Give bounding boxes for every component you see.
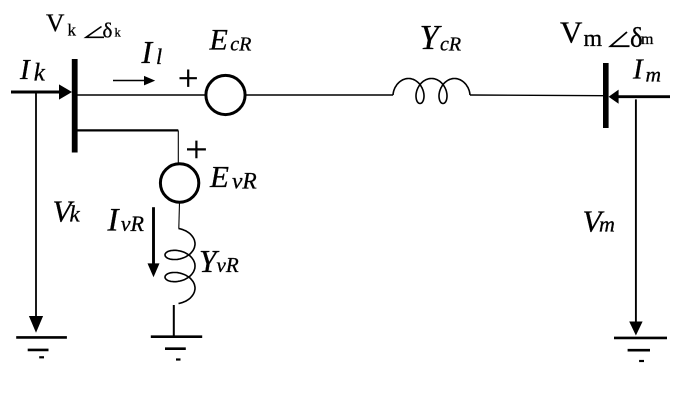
svg-text:I: I [19, 54, 31, 86]
svg-text:m: m [584, 26, 603, 52]
svg-text:l: l [156, 44, 162, 69]
svg-text:δ: δ [103, 19, 113, 43]
svg-text:k: k [68, 20, 77, 39]
svg-text:m: m [599, 212, 615, 237]
svg-text:I: I [632, 54, 644, 86]
svg-text:k: k [115, 26, 122, 40]
svg-text:vR: vR [121, 211, 145, 236]
svg-text:vR: vR [232, 168, 257, 194]
svg-text:m: m [646, 63, 662, 87]
svg-text:k: k [34, 59, 46, 86]
svg-text:V: V [46, 8, 65, 37]
svg-text:I: I [141, 34, 154, 70]
svg-text:vR: vR [217, 253, 239, 277]
svg-text:E: E [209, 159, 229, 194]
svg-text:V: V [560, 15, 583, 50]
svg-text:k: k [70, 202, 81, 227]
svg-text:cR: cR [230, 34, 251, 56]
svg-text:I: I [107, 202, 121, 238]
svg-text:m: m [641, 31, 654, 48]
svg-text:cR: cR [440, 33, 461, 55]
svg-text:E: E [209, 23, 228, 56]
